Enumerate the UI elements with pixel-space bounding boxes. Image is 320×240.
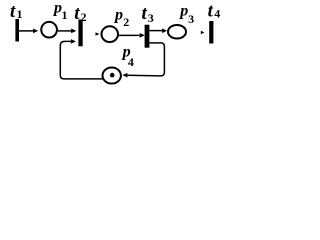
svg-text:t: t — [208, 1, 214, 22]
svg-text:3: 3 — [188, 12, 194, 26]
wire t1 to p1 — [19, 30, 34, 32]
place p3 — [168, 25, 186, 39]
svg-text:4: 4 — [128, 55, 134, 69]
place p4 — [103, 68, 121, 84]
svg-text:3: 3 — [148, 11, 154, 25]
wire p1 to t2 — [58, 30, 72, 32]
label p2 — [113, 6, 129, 29]
label t1 — [10, 1, 23, 22]
label p4 — [121, 43, 134, 69]
svg-text:2: 2 — [123, 15, 129, 29]
svg-text:4: 4 — [214, 7, 220, 21]
place p1 — [41, 22, 57, 38]
transition t1 — [15, 19, 19, 42]
transition t4 — [209, 21, 213, 44]
svg-text:1: 1 — [62, 8, 68, 22]
arrowhead t2 to p2 (short floating arrow) — [96, 32, 100, 36]
arrowhead into t2 (upper) — [71, 29, 76, 34]
place p2 — [102, 26, 119, 42]
arrowhead into p3 — [162, 28, 167, 33]
wire p4 to t2 (left loop, up) — [60, 41, 102, 79]
svg-text:t: t — [142, 3, 148, 24]
wire t3 to p4 (right loop, down) — [127, 43, 164, 76]
label t2 — [74, 3, 86, 24]
label t4 — [208, 1, 221, 22]
svg-text:t: t — [10, 1, 16, 22]
arrowhead into t2 (lower) — [71, 39, 76, 44]
svg-text:2: 2 — [81, 10, 87, 24]
svg-text:p: p — [52, 0, 62, 16]
arrowhead into t3 — [140, 33, 145, 38]
svg-text:p: p — [113, 6, 123, 23]
label t3 — [142, 3, 154, 25]
wire p2 to t3 — [119, 34, 140, 36]
svg-text:t: t — [74, 3, 80, 24]
transition t2 — [78, 20, 82, 47]
token in p4 — [110, 73, 115, 78]
arrowhead into p4 — [122, 73, 127, 78]
svg-text:p: p — [178, 3, 188, 20]
transition t3 — [145, 25, 150, 48]
arrowhead p3 to t4 (short floating arrow) — [201, 31, 205, 35]
label p1 — [52, 0, 68, 22]
arrowhead into p1 — [33, 29, 38, 34]
wire t3 to p3 — [149, 30, 162, 32]
svg-text:1: 1 — [17, 7, 23, 21]
label p3 — [178, 3, 194, 27]
